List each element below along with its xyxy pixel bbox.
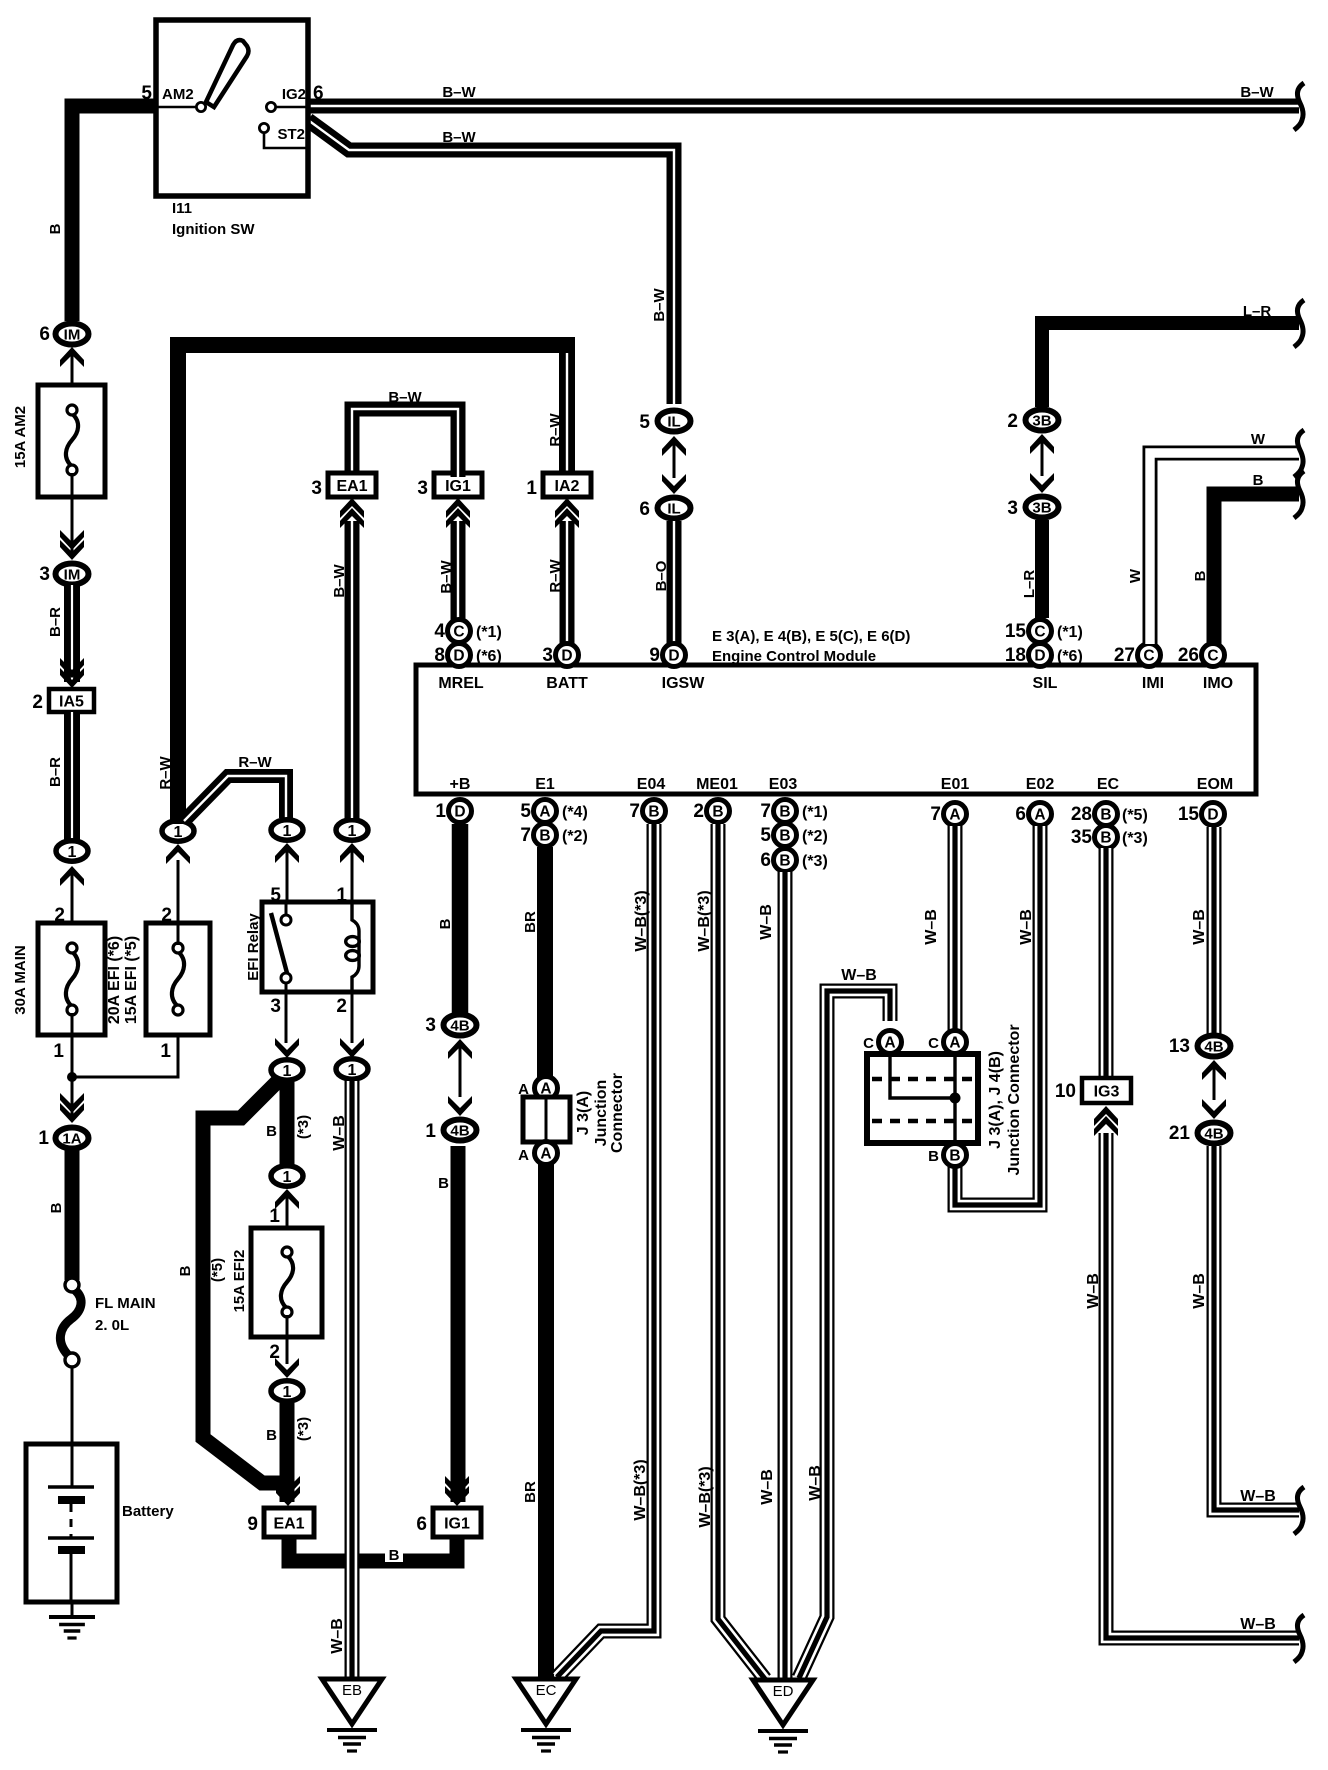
E1 pin B [534,824,557,847]
svg-text:9: 9 [247,1514,258,1535]
junction J3 bottom A [535,1142,558,1165]
wire W-B IG3 to right edge [1106,1133,1299,1638]
wire 30A MAIN to junction [71,1013,74,1119]
svg-text:B: B [779,853,790,870]
svg-text:C: C [1034,624,1045,641]
svg-text:3: 3 [1007,498,1018,519]
svg-text:(*5): (*5) [209,1258,226,1282]
E04 pin B [643,800,666,823]
svg-text:W–B(*3): W–B(*3) [697,1466,714,1527]
ignition switch I11 box [156,20,308,196]
svg-text:B: B [47,223,64,234]
arrow into IG3 [1094,1106,1118,1136]
arrow into 1 4B [448,1096,472,1116]
svg-text:ME01: ME01 [696,776,738,793]
svg-text:B: B [949,1148,960,1165]
svg-text:E02: E02 [1026,776,1055,793]
connector oval 1 relay3 [271,1060,303,1080]
wire battery to ground [71,1602,74,1617]
svg-text:D: D [454,804,465,821]
svg-text:W–B: W–B [331,1115,348,1151]
fusible link FL MAIN [60,1278,81,1367]
IGSW pin D [663,644,686,667]
svg-text:W–B(*3): W–B(*3) [632,1459,649,1520]
wire W-B relay2 to EB [345,1081,360,1679]
fuse 20A EFI box [146,923,210,1035]
svg-text:1: 1 [283,1384,292,1401]
svg-text:(*1): (*1) [476,624,502,641]
svg-text:EOM: EOM [1197,776,1233,793]
svg-text:3B: 3B [1032,412,1051,429]
connector 3 IG1 top box [434,473,482,497]
svg-text:B: B [712,804,723,821]
wire EFI2 fuse down [286,1315,289,1364]
AM2 contact stub [156,106,196,109]
svg-text:IMI: IMI [1142,675,1164,692]
svg-text:J 3(A): J 3(A) [575,1091,592,1135]
svg-text:D: D [1034,648,1045,665]
junction J3/J4 bottom B [944,1144,967,1167]
wire B-O IL to IGSW [667,521,682,648]
svg-text:4B: 4B [450,1017,469,1034]
svg-text:SIL: SIL [1033,675,1058,692]
svg-text:5: 5 [141,83,152,104]
svg-text:Junction Connector: Junction Connector [1006,1024,1023,1175]
svg-text:L–R: L–R [1243,303,1272,320]
svg-text:20A EFI (*6): 20A EFI (*6) [106,936,123,1024]
svg-text:B–R: B–R [47,757,64,787]
wire B battery feed [65,1150,80,1280]
arrow into 3 3B [1030,473,1054,493]
svg-text:A: A [949,807,960,824]
svg-text:E1: E1 [535,776,555,793]
svg-text:5: 5 [639,412,650,433]
wire B-R IM to IA5 [64,585,80,682]
junction J3/J4 top right A [944,1031,967,1054]
connector 3 EA1 top box [328,473,376,497]
svg-text:A: A [518,1147,529,1164]
svg-text:B–R: B–R [47,607,64,637]
connector 6 IM [56,324,89,345]
arrow into 1A [60,1093,84,1123]
junction wire to EFI fuse [72,1013,178,1077]
ground point EC ground [521,1730,571,1751]
svg-text:IGSW: IGSW [662,675,706,692]
junction J3/J4 top left A [879,1031,902,1054]
svg-text:C: C [863,1035,874,1052]
svg-text:C: C [928,1035,939,1052]
MREL pin C [448,620,471,643]
continuation brace B [1294,471,1304,518]
svg-text:E03: E03 [769,776,798,793]
svg-text:D: D [561,648,572,665]
svg-text:A: A [540,1146,551,1163]
fuse 15A AM2 box [38,385,105,497]
svg-text:IL: IL [667,500,680,517]
svg-text:B–W: B–W [442,129,476,146]
arrow into 3 IM [60,530,84,560]
svg-text:18: 18 [1005,645,1026,666]
svg-text:B: B [48,1202,65,1213]
svg-text:21: 21 [1169,1123,1191,1144]
battery ground [49,1617,95,1638]
relay coil [346,902,360,992]
fuse 30A MAIN box [38,923,105,1035]
arrow into 5 IL [662,436,686,456]
svg-text:IG1: IG1 [444,1515,470,1532]
wire B-W from IG2 to right edge [308,99,1299,114]
wire R-W IA2 to BATT [560,521,575,644]
svg-text:B–O: B–O [653,560,670,591]
wire between IL [673,443,676,478]
wire FL MAIN to battery [71,1367,74,1445]
svg-text:6: 6 [313,83,324,104]
arrow into 6 IL [662,474,686,494]
wire L-R 3B to SIL [1035,520,1049,618]
connector oval 1 relay2 [336,1059,368,1079]
svg-text:EC: EC [536,1682,557,1699]
wire R-W rail to IA2 [559,344,575,475]
IG2 contact stub [276,106,308,109]
svg-text:1: 1 [53,1041,64,1062]
wire B-R IA5 down [64,712,80,842]
svg-text:15A AM2: 15A AM2 [12,406,29,468]
connector 3 IM [56,564,89,585]
svg-text:Junction: Junction [593,1080,610,1147]
svg-text:Engine Control Module: Engine Control Module [712,648,876,665]
svg-text:(*1): (*1) [802,804,828,821]
wire B 4B to IG1 [451,1146,466,1502]
relay switch contact top [281,915,291,925]
E01 pin A [944,803,967,826]
arrow into EA1 [276,1476,300,1506]
svg-text:2: 2 [269,1342,280,1363]
svg-text:4B: 4B [450,1122,469,1139]
battery symbol [48,1446,94,1602]
svg-text:2: 2 [161,905,172,926]
E02 pin A [1029,803,1052,826]
svg-text:15: 15 [1005,621,1027,642]
svg-text:(*1): (*1) [1057,624,1083,641]
svg-text:EFI Relay: EFI Relay [245,913,262,981]
svg-text:C: C [453,624,464,641]
svg-text:(*2): (*2) [802,828,828,845]
svg-text:6: 6 [416,1514,427,1535]
svg-text:1: 1 [435,801,446,822]
svg-text:B: B [438,1175,449,1192]
svg-text:1: 1 [283,1169,292,1186]
E1 pin A [534,800,557,823]
svg-text:4B: 4B [1204,1125,1223,1142]
wire B-W EA1-IG1 bridge [352,409,458,477]
E03 pin B1 [774,800,797,823]
svg-text:3B: 3B [1032,499,1051,516]
wire between 4B EOM [1213,1067,1216,1100]
fuse 15A AM2 symbol [66,405,78,475]
svg-text:L–R: L–R [1021,570,1038,599]
svg-text:B–W: B–W [388,389,422,406]
svg-text:15A EFI (*5): 15A EFI (*5) [123,936,140,1024]
svg-text:4: 4 [434,621,445,642]
continuation brace W-B EC [1294,1615,1304,1662]
svg-text:IM: IM [64,326,81,343]
fuse 30A MAIN symbol [66,943,78,1015]
svg-text:D: D [1207,807,1218,824]
arrow into EA1 top [340,498,364,528]
svg-text:EA1: EA1 [273,1515,304,1532]
MREL pin D [448,644,471,667]
EFI relay box [262,902,373,992]
wire B +B to 4B [452,824,469,1013]
svg-text:R–W: R–W [547,558,564,592]
svg-text:7: 7 [629,801,640,822]
svg-text:B: B [779,804,790,821]
relay switch blade [271,913,287,973]
svg-text:1: 1 [160,1041,171,1062]
svg-text:R–W: R–W [157,755,174,789]
svg-text:3: 3 [425,1015,436,1036]
svg-text:(*4): (*4) [562,804,588,821]
svg-text:5: 5 [760,825,771,846]
svg-text:3: 3 [542,645,553,666]
svg-text:B: B [389,1547,400,1564]
connector oval 1 relay5 [271,820,303,840]
wire B from battery fuse to ignition AM2 [72,106,156,321]
fuse 15A EFI2 box [251,1228,322,1337]
svg-text:BR: BR [522,1481,539,1503]
svg-text:3: 3 [417,478,428,499]
ground point EB ground [327,1730,377,1751]
EOM pin D [1202,803,1225,826]
svg-text:(*3): (*3) [802,853,828,870]
+B pin D [449,800,472,823]
wire B efi2 to EA1 [280,1403,295,1502]
svg-text:W: W [1127,568,1144,583]
wire W-B EC to IG3 [1099,848,1114,1079]
svg-text:A: A [539,804,550,821]
svg-text:(*6): (*6) [1057,648,1083,665]
svg-text:W–B: W–B [1191,1273,1208,1309]
svg-text:5: 5 [520,801,531,822]
connector 6 IG1 box [433,1508,481,1537]
wire W-B E01 down [948,826,963,1032]
wire W-B E02 down [955,826,1040,1205]
svg-text:AM2: AM2 [162,86,194,103]
ME01 pin B [707,800,730,823]
IMO pin C [1202,644,1225,667]
continuation brace B-W [1294,83,1304,130]
svg-text:J 3(A), J 4(B): J 3(A), J 4(B) [987,1051,1004,1149]
continuation brace W-B EOM [1294,1487,1304,1534]
svg-text:B: B [539,828,550,845]
ECM Engine Control Module box [416,665,1256,794]
relay pin2 wire [351,992,354,1043]
EC pin B1 [1095,803,1118,826]
SIL pin D [1029,644,1052,667]
svg-text:B: B [1100,830,1111,847]
svg-text:13: 13 [1169,1036,1190,1057]
svg-text:W–B: W–B [1240,1616,1276,1633]
arrow into IM [60,347,84,367]
svg-text:W–B: W–B [841,967,877,984]
svg-text:B: B [1253,472,1264,489]
fuse 15A EFI2 symbol [281,1247,293,1317]
svg-text:D: D [453,648,464,665]
wire W-B EOM to 4B [1207,827,1222,1034]
svg-text:B–W: B–W [442,84,476,101]
wire W-B E03 to ED [778,872,793,1679]
wire oval to relay pin1 [351,850,354,903]
svg-text:ED: ED [773,1683,794,1700]
svg-text:4B: 4B [1204,1038,1223,1055]
wire W-B branch to junction A [799,991,890,1678]
svg-text:B–W: B–W [1240,84,1274,101]
svg-text:A: A [949,1035,960,1052]
wire B-W IG1 to MREL [451,521,466,621]
E03 pin B3 [774,849,797,872]
wire W-B E04 to EC ground [557,824,654,1677]
svg-text:W–B: W–B [807,1465,824,1501]
connector oval 1 efi2 bottom [271,1381,303,1401]
svg-text:IMO: IMO [1203,675,1233,692]
svg-text:A: A [1034,807,1045,824]
wire B-W from ignition to IGSW [308,120,674,404]
svg-text:Battery: Battery [122,1503,174,1520]
wire B relay3 to oval [280,1082,295,1164]
svg-text:E04: E04 [637,776,666,793]
svg-text:1: 1 [174,824,183,841]
svg-text:1A: 1A [62,1130,81,1147]
arrow into oval relay2 [340,1038,364,1058]
svg-text:BATT: BATT [546,675,588,692]
relay pin3 wire [285,982,288,1043]
svg-text:15: 15 [1178,804,1200,825]
svg-text:B–W: B–W [331,563,348,597]
svg-text:W–B: W–B [1191,909,1208,945]
arrow into IA5 [60,658,84,688]
wire W IMI [1150,453,1299,644]
wire EFI fuse to oval [177,860,180,945]
connector 6 IL [658,498,691,519]
svg-text:D: D [668,648,679,665]
svg-text:BR: BR [522,911,539,933]
junction connector J3(A) box [523,1097,570,1142]
connector 21 4B [1198,1123,1231,1144]
wire oval to relay pin5 [286,850,289,903]
svg-text:EC: EC [1097,776,1120,793]
connector 3 4B [444,1015,477,1036]
connector 1 IA2 box [543,473,591,497]
wire W-B ME01 to ED [718,824,765,1679]
ST2 stub [264,132,308,148]
ST2 contact [259,123,268,132]
svg-text:1: 1 [68,844,77,861]
wire R-W diagonal branch [184,776,286,821]
arrow into oval 1 left [60,866,84,886]
svg-text:30A MAIN: 30A MAIN [12,945,29,1014]
svg-text:Ignition SW: Ignition SW [172,221,255,238]
junction dot [67,1072,77,1082]
svg-text:E01: E01 [941,776,970,793]
svg-text:IA5: IA5 [59,693,84,710]
connector oval 1 relay1 [336,820,368,840]
svg-text:W–B(*3): W–B(*3) [696,890,713,951]
svg-text:(*3): (*3) [295,1417,312,1441]
svg-text:EA1: EA1 [336,478,367,495]
svg-text:W–B: W–B [759,1469,776,1505]
svg-text:(*3): (*3) [295,1115,312,1139]
svg-text:B: B [437,918,454,929]
AM2 contact [196,102,205,111]
svg-text:FL MAIN: FL MAIN [95,1295,156,1312]
svg-text:(*6): (*6) [476,648,502,665]
ignition rotor wedge [206,40,249,107]
svg-text:A: A [884,1035,895,1052]
arrow into 21 4B [1202,1099,1226,1119]
svg-text:B: B [779,828,790,845]
wire W-B 21 4B to right edge [1214,1146,1299,1510]
wire BR junction to EC [538,1164,554,1679]
wire fuse AM2 to 3 IM [71,473,74,556]
arrow into 3 4B [448,1039,472,1059]
svg-text:B: B [928,1148,939,1165]
svg-text:ST2: ST2 [277,126,305,143]
svg-text:1: 1 [283,1063,292,1080]
relay pin5 stub [285,902,288,916]
svg-text:7: 7 [930,804,941,825]
svg-text:9: 9 [649,645,660,666]
svg-text:2: 2 [32,692,43,713]
svg-text:IG3: IG3 [1094,1083,1120,1100]
BATT pin D [556,644,579,667]
relay switch contact bottom [281,973,291,983]
wire B-W EA1 to oval [345,521,360,818]
EC pin B2 [1095,826,1118,849]
svg-text:1: 1 [348,823,357,840]
arrow into 2 3B [1030,434,1054,454]
svg-text:10: 10 [1055,1081,1076,1102]
label B loop halo [385,1545,403,1562]
arrow into oval efi2 bottom [275,1358,299,1378]
connector oval 1 efi fuse [162,821,194,841]
svg-text:6: 6 [760,850,771,871]
svg-text:7: 7 [760,801,771,822]
wire oval to 30A MAIN [71,873,74,945]
svg-text:B–W: B–W [438,559,455,593]
svg-text:28: 28 [1071,804,1092,825]
svg-text:EB: EB [342,1682,362,1699]
svg-text:B: B [648,804,659,821]
svg-text:C: C [1143,648,1154,665]
svg-text:B: B [266,1427,277,1444]
svg-text:W–B: W–B [1085,1273,1102,1309]
svg-text:B: B [266,1123,277,1140]
svg-text:I11: I11 [172,200,192,217]
arrow into oval relay5 [275,843,299,863]
connector oval 1 efi2 top [271,1166,303,1186]
wire between 4B [459,1046,462,1097]
wire B EA1 to IG1 loop [289,1537,457,1561]
svg-text:2. 0L: 2. 0L [95,1317,129,1334]
arrow into oval 1 efi [166,844,190,864]
svg-text:1: 1 [348,1062,357,1079]
IMI pin C [1138,644,1161,667]
arrow into oval relay1 [340,843,364,863]
svg-text:W–B: W–B [329,1618,346,1654]
wire between 3B [1041,441,1044,476]
wire B (*5) bypass [203,1079,288,1483]
svg-text:1: 1 [425,1121,436,1142]
